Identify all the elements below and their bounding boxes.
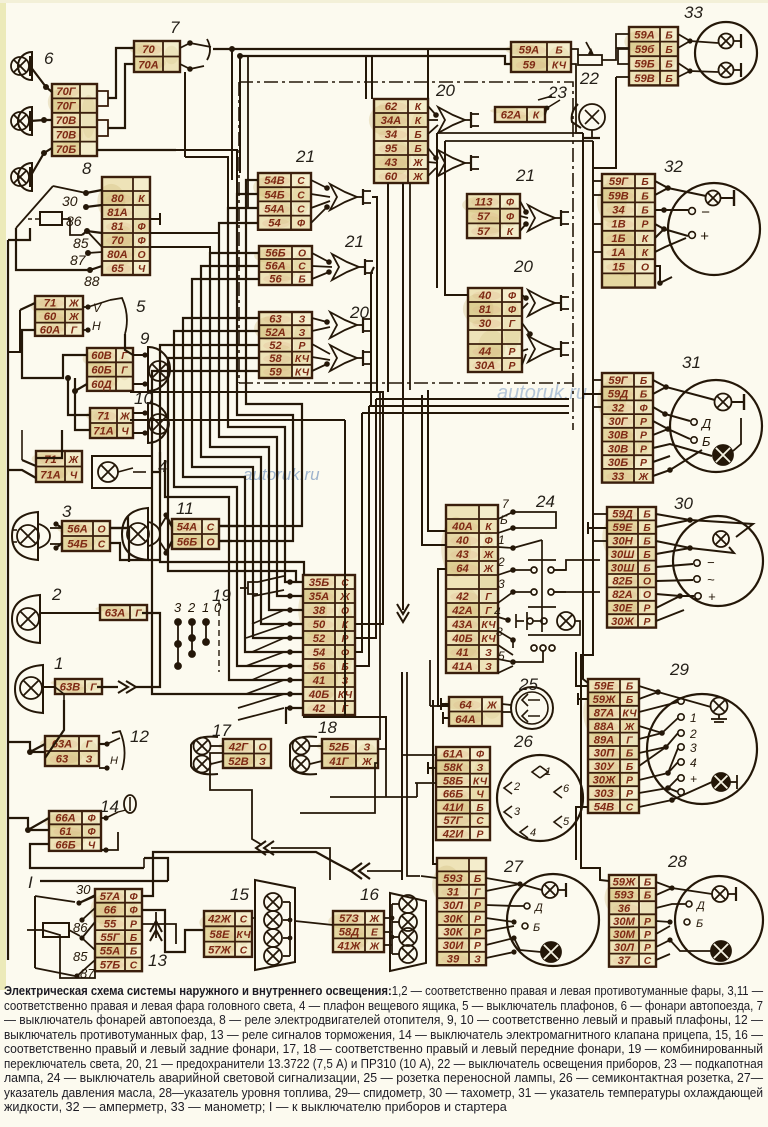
svg-text:З: З bbox=[86, 755, 93, 766]
wires to 30 bbox=[656, 514, 753, 621]
svg-text:Б: Б bbox=[643, 523, 650, 534]
svg-text:60А: 60А bbox=[40, 324, 61, 336]
wire bbox=[22, 330, 87, 378]
road-train lamp 6.2 bbox=[18, 107, 32, 135]
svg-text:55А: 55А bbox=[100, 946, 121, 958]
wire bbox=[22, 460, 36, 466]
svg-text:20: 20 bbox=[349, 303, 369, 322]
wire bbox=[428, 390, 446, 531]
socket 26 bbox=[497, 755, 583, 841]
hood lamp 23 bbox=[572, 104, 605, 138]
headlamp 3 socket bbox=[39, 524, 50, 548]
svg-text:Б: Б bbox=[414, 144, 421, 155]
svg-text:Б: Б bbox=[626, 762, 633, 773]
fuse symbol 20m lower bbox=[528, 336, 569, 362]
fuse symbol 21m bbox=[528, 205, 569, 231]
svg-text:Б: Б bbox=[626, 749, 633, 760]
wire bbox=[571, 49, 578, 55]
fog lamp 2 lead bbox=[40, 612, 100, 614]
connector block of relay 13 bbox=[91, 889, 143, 971]
plafond 9 bulb bbox=[149, 361, 169, 381]
temp gauge 31 bulb bbox=[715, 394, 732, 411]
svg-text:1В: 1В bbox=[611, 219, 625, 231]
svg-text:60В: 60В bbox=[91, 350, 112, 362]
svg-text:Г: Г bbox=[509, 319, 516, 330]
svg-text:С: С bbox=[298, 262, 306, 273]
svg-text:Б: Б bbox=[644, 878, 651, 889]
wire bbox=[409, 183, 411, 390]
svg-text:30М: 30М bbox=[613, 916, 635, 928]
svg-text:3: 3 bbox=[62, 502, 72, 521]
T pin 31 bbox=[583, 388, 602, 400]
wire bbox=[502, 711, 511, 713]
junction bbox=[84, 228, 90, 234]
switch 24 contact dots bbox=[505, 509, 516, 665]
svg-text:Ф: Ф bbox=[87, 827, 96, 838]
rear lamp 16 body bbox=[390, 893, 426, 971]
connector block of manometer 33 bbox=[624, 27, 678, 85]
wire bbox=[372, 197, 377, 392]
wire bbox=[56, 524, 62, 528]
switch 7 bbox=[180, 39, 211, 72]
svg-text:H: H bbox=[92, 319, 101, 333]
wire bbox=[79, 896, 95, 903]
svg-text:63: 63 bbox=[56, 754, 69, 766]
svg-text:Д: Д bbox=[533, 902, 543, 914]
svg-text:80А: 80А bbox=[107, 249, 128, 261]
wire bbox=[593, 251, 602, 253]
svg-text:Ж: Ж bbox=[412, 172, 424, 183]
svg-text:42И: 42И bbox=[442, 829, 464, 841]
svg-text:30Ш: 30Ш bbox=[611, 549, 635, 561]
svg-text:17: 17 bbox=[212, 721, 231, 740]
svg-text:66: 66 bbox=[104, 905, 117, 917]
svg-text:30Ж: 30Ж bbox=[611, 616, 634, 628]
svg-text:Ж: Ж bbox=[68, 312, 80, 323]
fuse symbol 21a bbox=[330, 184, 371, 210]
svg-text:85: 85 bbox=[73, 949, 88, 964]
T pin 26 bbox=[428, 762, 436, 774]
switch 24 outputs bbox=[513, 512, 600, 662]
connector block of front lamp 18 bbox=[317, 739, 378, 768]
svg-text:V: V bbox=[93, 301, 102, 315]
plafond 4 bulb bbox=[98, 462, 118, 482]
headlamp 11 leads bbox=[160, 512, 172, 555]
wire bbox=[142, 910, 204, 952]
wires to 33 bbox=[678, 34, 718, 77]
wire bbox=[152, 371, 303, 694]
svg-text:Р: Р bbox=[644, 930, 651, 941]
caption text bbox=[4, 984, 765, 1115]
svg-text:41Г: 41Г bbox=[328, 756, 349, 768]
wire bbox=[8, 228, 30, 240]
svg-text:Б: Б bbox=[414, 130, 421, 141]
wire bbox=[502, 704, 511, 705]
wire bbox=[143, 858, 145, 868]
connector block of headlamp 3 bbox=[57, 521, 110, 551]
svg-text:43А: 43А bbox=[451, 619, 473, 631]
fuse block 20 left bbox=[254, 312, 312, 378]
svg-text:Н: Н bbox=[110, 755, 118, 767]
front lamp 17 body bbox=[191, 737, 218, 775]
svg-text:Ч: Ч bbox=[138, 264, 146, 275]
svg-text:С: С bbox=[297, 190, 305, 201]
connector block of switch 12 bbox=[40, 736, 99, 766]
svg-text:Ф: Ф bbox=[484, 536, 493, 547]
wire bbox=[184, 72, 186, 157]
svg-text:3: 3 bbox=[498, 577, 505, 591]
svg-text:З: З bbox=[299, 328, 306, 339]
temp gauge 31 bbox=[670, 380, 762, 472]
wire bbox=[201, 266, 303, 624]
socket 26 numbers bbox=[513, 766, 570, 839]
svg-text:43: 43 bbox=[384, 157, 398, 169]
svg-text:59Ж: 59Ж bbox=[613, 877, 636, 889]
svg-text:20: 20 bbox=[435, 81, 455, 100]
fuse block 21 middle bbox=[462, 194, 520, 238]
wire bbox=[365, 56, 367, 99]
svg-text:Ч: Ч bbox=[70, 470, 78, 481]
svg-text:59: 59 bbox=[523, 60, 536, 72]
svg-text:71: 71 bbox=[97, 411, 109, 423]
svg-text:30Е: 30Е bbox=[613, 603, 633, 615]
wire bbox=[593, 194, 602, 196]
switch 19 levers bbox=[238, 576, 284, 720]
svg-text:33: 33 bbox=[612, 471, 625, 483]
fuel gauge 28 bulb bbox=[712, 886, 728, 902]
svg-text:Р: Р bbox=[644, 604, 651, 615]
wire bbox=[430, 705, 441, 707]
svg-text:30К: 30К bbox=[443, 927, 463, 939]
wire bbox=[88, 252, 102, 253]
svg-text:14: 14 bbox=[100, 797, 119, 816]
svg-text:59В: 59В bbox=[608, 190, 629, 202]
switch 19 zero column bbox=[218, 600, 220, 672]
svg-text:66А: 66А bbox=[55, 813, 76, 825]
fuse feeds 21m bbox=[520, 201, 528, 231]
svg-text:Ф: Ф bbox=[137, 236, 146, 247]
wire bbox=[593, 406, 602, 408]
junction bbox=[237, 53, 243, 59]
wire bbox=[571, 64, 583, 133]
fuse symbol 20t lower bbox=[438, 150, 479, 176]
svg-text:Ж: Ж bbox=[369, 914, 381, 925]
svg-text:54А: 54А bbox=[177, 522, 198, 534]
svg-text:71: 71 bbox=[44, 298, 56, 310]
svg-text:59б: 59б bbox=[635, 44, 655, 56]
svg-text:70Г: 70Г bbox=[56, 86, 76, 98]
terminal B 31 bbox=[691, 437, 697, 443]
svg-text:С: С bbox=[240, 915, 248, 926]
svg-text:Б: Б bbox=[665, 30, 672, 41]
fuse feeds bbox=[311, 180, 330, 223]
connector block of plafond 4 bbox=[32, 451, 82, 482]
svg-text:I: I bbox=[28, 873, 33, 892]
svg-text:О: О bbox=[298, 249, 306, 260]
switch 24 cross contacts bbox=[513, 540, 566, 651]
svg-text:86: 86 bbox=[73, 920, 88, 935]
svg-text:Ф: Ф bbox=[129, 892, 138, 903]
junction bbox=[83, 190, 89, 196]
wire bbox=[345, 420, 386, 750]
svg-text:КЧ: КЧ bbox=[622, 709, 637, 720]
svg-text:56: 56 bbox=[313, 661, 326, 673]
svg-text:С: С bbox=[130, 960, 138, 971]
svg-text:52: 52 bbox=[269, 340, 282, 352]
connector block of oil gauge 27 bbox=[432, 858, 486, 966]
junction bbox=[41, 150, 47, 156]
svg-text:КЧ: КЧ bbox=[552, 61, 567, 72]
svg-text:Ж: Ж bbox=[68, 455, 80, 466]
svg-text:О: О bbox=[643, 577, 651, 588]
speedometer 29 bulb bbox=[711, 698, 728, 715]
svg-text:Б: Б bbox=[626, 695, 633, 706]
fuse block 21 lower bbox=[254, 246, 312, 286]
headlamp 11 socket bbox=[149, 522, 160, 546]
rear lamp 16 bulb 3 bbox=[399, 928, 417, 946]
wire bbox=[30, 66, 52, 92]
svg-text:Б: Б bbox=[626, 682, 633, 693]
plafond 9 leads bbox=[133, 352, 148, 386]
svg-text:65: 65 bbox=[111, 263, 124, 275]
manometer 33 bbox=[695, 22, 757, 84]
svg-text:42Г: 42Г bbox=[228, 741, 249, 753]
svg-text:71А: 71А bbox=[93, 426, 114, 438]
svg-text:59Д: 59Д bbox=[608, 389, 629, 401]
svg-text:86: 86 bbox=[66, 213, 82, 229]
lamp stem bbox=[29, 56, 31, 76]
svg-text:88: 88 bbox=[84, 273, 100, 289]
connector block of lamp 23 bbox=[490, 107, 545, 122]
svg-text:59Б: 59Б bbox=[634, 59, 654, 71]
socket 26 contacts bbox=[504, 766, 562, 838]
svg-text:Б: Б bbox=[665, 60, 672, 71]
wire bbox=[286, 708, 303, 724]
fuse feeds 20c bbox=[312, 318, 330, 371]
fog lamp 1 body bbox=[15, 665, 43, 713]
wire bbox=[30, 120, 52, 121]
svg-text:59А: 59А bbox=[634, 29, 655, 41]
svg-text:30: 30 bbox=[674, 494, 693, 513]
front lamp 17 bulb 1 bbox=[194, 738, 211, 755]
fuse feeds bbox=[312, 253, 332, 279]
svg-text:К: К bbox=[642, 234, 649, 245]
svg-text:Б: Б bbox=[665, 45, 672, 56]
svg-text:59З: 59З bbox=[614, 890, 634, 902]
svg-text:34А: 34А bbox=[381, 115, 402, 127]
fuse feeds 20m bbox=[522, 295, 530, 365]
svg-text:Р: Р bbox=[644, 617, 651, 628]
svg-text:59Е: 59Е bbox=[613, 522, 633, 534]
svg-text:62: 62 bbox=[385, 101, 398, 113]
svg-text:6: 6 bbox=[44, 49, 54, 68]
svg-text:41А: 41А bbox=[451, 661, 473, 673]
tab 33 bbox=[618, 49, 629, 64]
headlamp 11 bulb bbox=[127, 523, 149, 545]
wire bbox=[438, 569, 449, 706]
fuse 22 bbox=[578, 42, 602, 65]
svg-text:70: 70 bbox=[142, 44, 155, 56]
connector block of rear lamp 16 bbox=[328, 911, 384, 952]
svg-text:40Б: 40Б bbox=[451, 633, 472, 645]
wire bbox=[583, 133, 588, 683]
svg-text:30Ш: 30Ш bbox=[611, 562, 635, 574]
arrow up 13 bbox=[150, 921, 162, 941]
junction bbox=[65, 375, 71, 381]
wire bbox=[427, 49, 429, 99]
wire bbox=[231, 49, 233, 180]
svg-text:Ф: Ф bbox=[129, 906, 138, 917]
wire bbox=[110, 528, 129, 562]
relay 13 links bbox=[77, 895, 95, 976]
svg-text:58Е: 58Е bbox=[210, 929, 230, 941]
svg-text:21: 21 bbox=[344, 232, 364, 251]
hazard indicator lamp bbox=[557, 612, 575, 630]
svg-text:64: 64 bbox=[456, 563, 469, 575]
svg-text:70Б: 70Б bbox=[56, 144, 76, 156]
svg-text:−: − bbox=[707, 555, 715, 570]
T pin 25 bbox=[441, 698, 449, 724]
svg-text:О: О bbox=[97, 525, 105, 536]
wire bbox=[82, 231, 102, 235]
svg-text:85: 85 bbox=[73, 235, 89, 251]
svg-text:50: 50 bbox=[313, 619, 326, 631]
terminal 29 bbox=[678, 698, 684, 704]
svg-text:Ж: Ж bbox=[486, 700, 498, 711]
svg-text:Ф: Ф bbox=[137, 222, 146, 233]
svg-text:59Ж: 59Ж bbox=[593, 694, 616, 706]
svg-text:КЧ: КЧ bbox=[236, 930, 251, 941]
svg-text:Ф: Ф bbox=[508, 291, 517, 302]
svg-text:82А: 82А bbox=[612, 589, 633, 601]
terminal plus 32 bbox=[689, 232, 696, 239]
fog lamp 1 lead bbox=[43, 686, 55, 688]
svg-text:З: З bbox=[474, 955, 481, 966]
rear lamp 16 bus bbox=[384, 904, 399, 954]
wire bbox=[7, 240, 9, 960]
ground 29 bbox=[711, 715, 727, 722]
svg-text:64А: 64А bbox=[455, 714, 476, 726]
wire bbox=[593, 180, 602, 182]
svg-text:Ж: Ж bbox=[412, 158, 424, 169]
connector block of rear lamp 15 bbox=[199, 911, 252, 957]
switch 12 bbox=[99, 731, 125, 771]
wire bbox=[28, 829, 49, 831]
wire bbox=[108, 64, 134, 128]
svg-text:57З: 57З bbox=[339, 913, 359, 925]
temp gauge 31 lower bulb bbox=[713, 445, 733, 465]
svg-text:60Д: 60Д bbox=[91, 379, 112, 391]
svg-text:Б: Б bbox=[643, 563, 650, 574]
svg-text:1: 1 bbox=[54, 654, 63, 673]
svg-text:52А: 52А bbox=[265, 327, 286, 339]
svg-text:Р: Р bbox=[474, 941, 481, 952]
plafond 10 dome bbox=[148, 403, 168, 443]
svg-text:60: 60 bbox=[44, 311, 57, 323]
fuse symbol 20m upper bbox=[528, 290, 569, 316]
wire bbox=[75, 391, 90, 430]
svg-text:26: 26 bbox=[513, 732, 533, 751]
svg-text:59В: 59В bbox=[634, 73, 655, 85]
bulb lead bbox=[732, 394, 744, 410]
svg-text:44: 44 bbox=[478, 346, 492, 358]
svg-text:Р: Р bbox=[474, 914, 481, 925]
svg-text:42: 42 bbox=[312, 703, 326, 715]
wire bbox=[379, 392, 381, 740]
svg-text:63: 63 bbox=[269, 314, 282, 326]
svg-text:58К: 58К bbox=[443, 762, 463, 774]
wire bbox=[16, 228, 102, 270]
svg-text:30К: 30К bbox=[443, 913, 463, 925]
svg-text:30Б: 30Б bbox=[608, 457, 628, 469]
svg-text:Г: Г bbox=[86, 740, 93, 751]
terminal 29 bbox=[678, 789, 684, 795]
svg-text:54В: 54В bbox=[264, 175, 285, 187]
terminal B 28 bbox=[684, 919, 690, 925]
svg-text:Б: Б bbox=[640, 376, 647, 387]
fog lamp 2 body bbox=[12, 595, 40, 643]
wire bbox=[8, 818, 49, 830]
bulb lead bbox=[733, 63, 741, 77]
svg-text:35Б: 35Б bbox=[309, 577, 329, 589]
svg-text:6: 6 bbox=[563, 783, 570, 795]
svg-text:12: 12 bbox=[130, 727, 149, 746]
connector block of fog lamp 1 bbox=[51, 679, 103, 694]
svg-text:Г: Г bbox=[135, 609, 142, 620]
wire bbox=[355, 399, 376, 638]
relay 13 contact dots bbox=[74, 900, 84, 978]
terminal minus 30 bbox=[694, 560, 700, 566]
svg-text:81: 81 bbox=[111, 221, 123, 233]
wire bbox=[593, 540, 607, 542]
svg-text:66Б: 66Б bbox=[55, 839, 75, 851]
svg-text:55: 55 bbox=[104, 918, 117, 930]
svg-text:Ф: Ф bbox=[639, 403, 648, 414]
wire bbox=[219, 223, 303, 596]
relay 13 bbox=[27, 896, 80, 976]
svg-text:15: 15 bbox=[230, 885, 249, 904]
rear lamp 15 bulb 2 bbox=[264, 911, 282, 929]
wire bbox=[99, 743, 107, 745]
fuse symbol 20t upper bbox=[438, 107, 479, 133]
svg-text:56: 56 bbox=[269, 274, 282, 286]
svg-text:57А: 57А bbox=[100, 891, 121, 903]
wire bbox=[616, 76, 629, 78]
wire bbox=[56, 543, 62, 548]
svg-text:Р: Р bbox=[299, 341, 306, 352]
svg-text:38: 38 bbox=[313, 605, 326, 617]
wire bbox=[437, 132, 583, 134]
connector block of switch 22 bbox=[506, 42, 571, 72]
speedometer 29 lower bulb bbox=[712, 773, 730, 791]
svg-text:24: 24 bbox=[535, 492, 555, 511]
connector block of ammeter 32 bbox=[597, 174, 655, 288]
wire bbox=[166, 515, 172, 526]
wire bbox=[87, 231, 102, 247]
wire bbox=[429, 660, 431, 706]
svg-text:33: 33 bbox=[684, 3, 703, 22]
svg-text:Е: Е bbox=[371, 928, 379, 939]
svg-text:59Д: 59Д bbox=[612, 509, 633, 521]
wire bbox=[219, 180, 302, 526]
svg-text:62А: 62А bbox=[501, 110, 522, 122]
connector block of speedometer 29 bbox=[583, 679, 639, 813]
svg-text:34: 34 bbox=[385, 129, 398, 141]
cab boundary dash-dot left bbox=[238, 82, 240, 383]
wire bbox=[387, 183, 389, 392]
svg-text:Б: Б bbox=[533, 922, 540, 934]
road-train lamp 6.3 bbox=[18, 163, 32, 191]
